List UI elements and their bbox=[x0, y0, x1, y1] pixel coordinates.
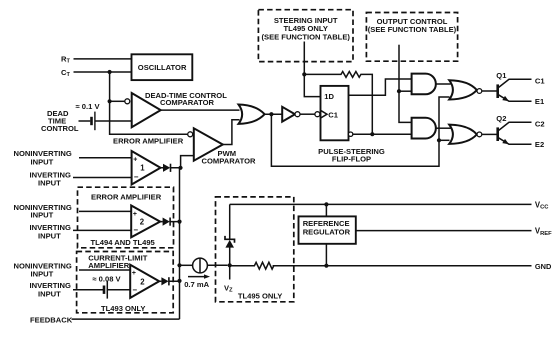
bubble flip-flop clock input bbox=[315, 112, 320, 117]
node feedback bus amp2 bbox=[177, 220, 181, 224]
svg-text:COMPARATOR: COMPARATOR bbox=[202, 157, 257, 166]
wire VZ stub bbox=[229, 265, 231, 279]
diode D1 amp1 output bbox=[161, 164, 179, 172]
rail VCC bbox=[230, 203, 532, 205]
wire output control to AND1 lower input bbox=[399, 90, 412, 92]
node feedback bus top bbox=[178, 166, 182, 170]
svg-text:−: − bbox=[134, 173, 139, 182]
svg-text:C1: C1 bbox=[328, 110, 338, 119]
wire PWM output to OR gate bbox=[223, 120, 240, 145]
wire AND1 to NOR1 bbox=[436, 83, 451, 85]
wire DTC output to OR gate bbox=[161, 109, 240, 111]
node OR output junction bbox=[269, 112, 273, 116]
svg-text:−: − bbox=[132, 285, 137, 294]
wire feedback to NOR2 input bbox=[439, 139, 450, 141]
oscillator box bbox=[132, 54, 193, 80]
svg-text:INPUT: INPUT bbox=[31, 270, 54, 279]
node current source tee bbox=[177, 263, 181, 267]
node sawtooth junction bbox=[108, 99, 112, 103]
zener diode VZ bbox=[225, 204, 235, 265]
node zener junction bbox=[228, 263, 232, 267]
comparator U1 dead-time control bbox=[132, 93, 161, 127]
resistor R1 steering bbox=[304, 72, 372, 135]
svg-text:TL493 ONLY: TL493 ONLY bbox=[101, 304, 145, 313]
svg-text:FEEDBACK: FEEDBACK bbox=[30, 316, 73, 325]
svg-text:(SEE FUNCTION TABLE): (SEE FUNCTION TABLE) bbox=[261, 33, 350, 42]
svg-text:COMPARATOR: COMPARATOR bbox=[160, 98, 215, 107]
svg-text:INPUT: INPUT bbox=[38, 179, 61, 188]
svg-text:INPUT: INPUT bbox=[38, 290, 61, 299]
node Q-bar/steering junction bbox=[370, 132, 374, 136]
svg-text:FLIP-FLOP: FLIP-FLOP bbox=[332, 155, 371, 164]
svg-text:1: 1 bbox=[140, 164, 145, 173]
wire AND2 to NOR2 bbox=[436, 127, 451, 129]
svg-text:CONTROL: CONTROL bbox=[41, 124, 79, 133]
op-amp current-limit amplifier bbox=[130, 265, 159, 298]
wire Q-bar to AND2 bbox=[353, 133, 412, 135]
svg-text:REGULATOR: REGULATOR bbox=[303, 228, 351, 237]
flip-flop U4 box bbox=[321, 86, 349, 140]
node output-control tee bbox=[397, 89, 401, 93]
wire noninverting input 2 bbox=[79, 210, 131, 212]
dashed box TL493 only bbox=[77, 252, 174, 313]
bubble buffer output bbox=[295, 112, 300, 117]
node NOR2 feedback tee bbox=[437, 138, 441, 142]
node GND regulator junction bbox=[324, 264, 328, 268]
svg-text:ERROR AMPLIFIER: ERROR AMPLIFIER bbox=[113, 136, 184, 145]
rail VREF bbox=[356, 230, 532, 232]
gate AND2 bbox=[412, 118, 436, 139]
wire inverting input 1 bbox=[73, 177, 132, 179]
node VCC regulator junction bbox=[324, 202, 328, 206]
svg-text:Q2: Q2 bbox=[496, 114, 506, 123]
bubble NOR2 output bbox=[477, 132, 482, 137]
dashed box TL495 only bbox=[216, 197, 294, 302]
svg-text:≈ 0.1 V: ≈ 0.1 V bbox=[76, 102, 101, 111]
op-amp error amplifier 1 bbox=[132, 151, 161, 185]
svg-text:OSCILLATOR: OSCILLATOR bbox=[138, 63, 187, 72]
wire RT to oscillator bbox=[74, 58, 132, 60]
wire regulator to VCC bbox=[325, 204, 327, 216]
wire regulator to GND bbox=[325, 244, 327, 266]
svg-text:TL494 AND TL495: TL494 AND TL495 bbox=[91, 238, 156, 247]
svg-text:INPUT: INPUT bbox=[31, 210, 54, 219]
transistor Q2 bbox=[498, 122, 532, 144]
wire steering input down bbox=[304, 42, 320, 97]
resistor R2 to GND rail bbox=[230, 262, 274, 269]
bubble DTC inverting input bbox=[125, 99, 130, 104]
node CT junction bbox=[108, 70, 112, 74]
wire sawtooth to DTC bubble bbox=[110, 100, 125, 102]
node feedback bus amp3 bbox=[177, 279, 181, 283]
wire feedback OR output to NOR gates bbox=[271, 97, 449, 166]
svg-text:C1: C1 bbox=[535, 76, 545, 85]
buffer U3 bbox=[282, 107, 295, 122]
svg-text:0.7 mA: 0.7 mA bbox=[184, 280, 209, 289]
op-amp error amplifier 2 bbox=[131, 206, 160, 238]
dashed box output control bbox=[366, 13, 457, 62]
reference regulator box bbox=[299, 216, 356, 243]
bubble NOR1 output bbox=[477, 89, 482, 94]
svg-text:ERROR AMPLIFIER: ERROR AMPLIFIER bbox=[91, 192, 162, 201]
wire output control down bbox=[398, 45, 400, 91]
svg-text:GND: GND bbox=[535, 262, 552, 271]
wire sawtooth down to PWM bubble bbox=[110, 101, 188, 134]
wire feedback bbox=[72, 281, 180, 319]
svg-text:−: − bbox=[133, 226, 138, 235]
svg-text:+: + bbox=[132, 270, 136, 277]
wire CT sawtooth down to DTC input bbox=[109, 72, 111, 101]
svg-text:E1: E1 bbox=[535, 97, 545, 106]
wire NOR1 to Q1 base bbox=[482, 90, 497, 92]
bubble PWM inverting input bbox=[188, 132, 193, 137]
svg-text:INVERTING: INVERTING bbox=[30, 223, 71, 232]
wire inverting input 3 bbox=[73, 289, 103, 291]
battery V2 0.08V bbox=[104, 281, 130, 299]
wire noninverting input 1 bbox=[79, 157, 132, 159]
gate NOR2 bbox=[449, 125, 477, 144]
dashed box steering input bbox=[258, 10, 353, 62]
bubble Q-bar output bbox=[348, 132, 352, 136]
svg-text:(SEE FUNCTION TABLE): (SEE FUNCTION TABLE) bbox=[368, 25, 457, 34]
wire Q output to AND1 bbox=[349, 79, 412, 95]
wire output control down to AND2 bbox=[399, 91, 412, 122]
gate OR1 bbox=[239, 105, 265, 124]
wire OR output bbox=[265, 113, 283, 115]
svg-text:2: 2 bbox=[140, 218, 145, 227]
svg-text:+: + bbox=[133, 157, 137, 164]
wire CT to oscillator bbox=[74, 71, 132, 73]
svg-text:C2: C2 bbox=[535, 119, 545, 128]
battery V1 0.1V bbox=[92, 112, 132, 131]
svg-text:1D: 1D bbox=[324, 92, 334, 101]
svg-text:TL495 ONLY: TL495 ONLY bbox=[238, 292, 282, 301]
svg-text:INPUT: INPUT bbox=[38, 232, 61, 241]
wire to PWM comparator input bbox=[181, 156, 194, 168]
node steering junction bbox=[302, 72, 306, 76]
diode D3 amp3 output bbox=[159, 277, 178, 285]
gate NOR1 bbox=[449, 80, 477, 99]
wire noninverting input 3 bbox=[79, 269, 130, 271]
wire dead-time control to battery bbox=[79, 120, 91, 122]
gate AND1 bbox=[412, 74, 436, 95]
svg-text:E2: E2 bbox=[535, 140, 544, 149]
svg-text:INPUT: INPUT bbox=[31, 158, 54, 167]
comparator U2 PWM bbox=[194, 128, 223, 160]
transistor Q1 bbox=[498, 79, 532, 101]
diode D2 amp2 output bbox=[160, 218, 178, 226]
wire NOR2 to Q2 base bbox=[482, 133, 497, 135]
svg-text:2: 2 bbox=[140, 277, 145, 286]
svg-text:AMPLIFIER: AMPLIFIER bbox=[88, 261, 129, 270]
wire buffer to flip-flop clock bbox=[300, 113, 315, 115]
wire inverting input 2 bbox=[73, 229, 131, 231]
rail GND bbox=[273, 265, 532, 267]
current source I1 0.7mA bbox=[181, 258, 228, 279]
dashed box TL494 and TL495 bbox=[78, 187, 174, 248]
svg-text:+: + bbox=[133, 211, 137, 218]
wire feedback bus vertical bbox=[179, 168, 181, 281]
clock wedge C1 bbox=[321, 110, 328, 118]
svg-text:Q1: Q1 bbox=[496, 71, 507, 80]
